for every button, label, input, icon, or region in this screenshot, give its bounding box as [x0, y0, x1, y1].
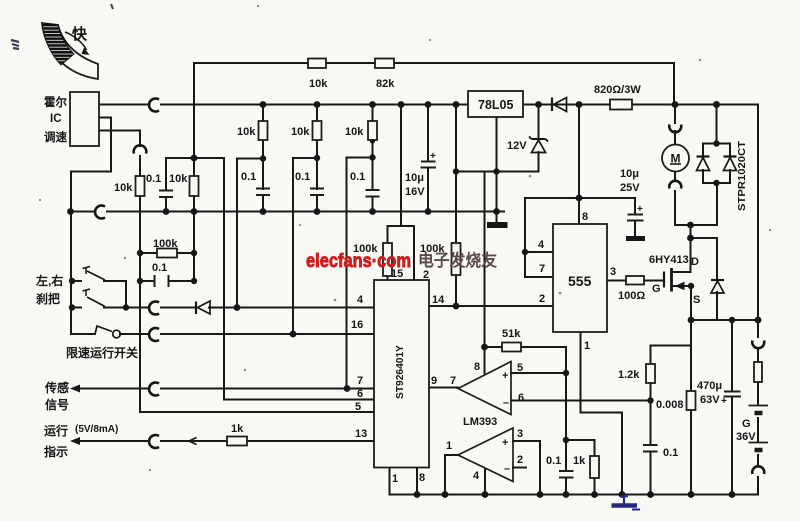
svg-text:调速: 调速: [44, 130, 67, 144]
svg-text:–: –: [504, 463, 510, 475]
capacitor 0.1 colB: [310, 189, 324, 196]
svg-text:ST926401Y: ST926401Y: [394, 345, 406, 399]
wire: pin14 row to 555 pin2: [430, 305, 552, 307]
svg-text:2: 2: [539, 293, 545, 305]
svg-text:7: 7: [450, 375, 456, 387]
wire: pin2 branch: [413, 226, 415, 280]
svg-text:36V: 36V: [736, 431, 756, 443]
wire: divider node x194 column: [193, 158, 195, 281]
svg-text:霍尔: 霍尔: [44, 95, 67, 109]
capacitor 10u/16V electrolytic: [421, 162, 437, 168]
svg-text:10k: 10k: [237, 126, 256, 138]
hall IC box: [70, 92, 99, 146]
svg-text:0.1: 0.1: [546, 455, 561, 467]
svg-text:G: G: [742, 418, 751, 430]
78L05 box U2: [468, 91, 523, 117]
svg-text:0.1: 0.1: [350, 171, 365, 183]
svg-text:+: +: [430, 151, 436, 162]
svg-text:10k: 10k: [291, 126, 310, 138]
svg-text:S: S: [693, 294, 700, 306]
comparator LM393b (lower, points left): [458, 428, 513, 482]
wire: 470u cap column x732: [731, 320, 733, 495]
wire: MOSFET source stub and column: [673, 286, 691, 495]
resistor 51k: [502, 343, 521, 352]
svg-text:10μ: 10μ: [620, 168, 639, 180]
svg-text:刹把: 刹把: [36, 291, 60, 306]
connector arcs at battery: [752, 341, 764, 349]
resistor 100k pin14: [452, 243, 461, 275]
svg-text:限速运行开关: 限速运行开关: [66, 345, 138, 360]
MOSFET 6HY413: [664, 268, 684, 292]
svg-text:8: 8: [474, 361, 480, 373]
svg-text:8: 8: [419, 472, 425, 484]
svg-text:运行: 运行: [44, 423, 68, 438]
wire: right edge column and battery column x758: [757, 105, 759, 495]
svg-text:555: 555: [568, 273, 592, 289]
wire: cap x166 stems: [165, 158, 167, 212]
wire: LM393 pin1 drop: [445, 455, 458, 495]
svg-text:+: +: [637, 204, 643, 215]
svg-text:7: 7: [539, 263, 545, 275]
svg-text:12V: 12V: [507, 140, 527, 152]
wire: 555 pin8 column: [578, 105, 580, 225]
wire: hall signal column x140 to IC pin5: [140, 156, 374, 412]
MCU box U1 ST926401Y: [374, 280, 429, 468]
wire: x566 column to 0.1 cap and bus: [565, 373, 567, 495]
svg-text:10k: 10k: [169, 173, 188, 185]
svg-text:14: 14: [432, 294, 445, 306]
limit speed switch with circle terminal: [95, 326, 120, 338]
wire: 1k branch y440: [566, 440, 595, 495]
wire: MOSFET drain stub: [673, 271, 691, 273]
capacitor 10u/25V electrolytic: [627, 215, 644, 221]
zener 12V: [529, 137, 548, 142]
svg-text:0.1: 0.1: [241, 171, 256, 183]
svg-text:1: 1: [584, 340, 590, 352]
wire: brake switch2 row to IC pin4: [72, 307, 374, 309]
svg-text:5: 5: [517, 362, 523, 374]
wire: 1.2k branch: [651, 346, 692, 402]
svg-text:+: +: [721, 396, 727, 407]
fuse on battery column: [754, 362, 762, 382]
svg-text:25V: 25V: [620, 182, 640, 194]
svg-text:10k: 10k: [345, 126, 364, 138]
battery G 36V plates: [749, 405, 769, 407]
junction dots: right power area: [687, 140, 761, 323]
wire: comparator pin5 row: [511, 372, 566, 374]
svg-text:指示: 指示: [44, 444, 68, 459]
wire: 555 pin3 to gate resistor: [607, 280, 663, 282]
wire: left column to brake switches: [70, 172, 72, 335]
svg-text:1: 1: [446, 440, 452, 452]
wire: 10k pullup column x317: [316, 105, 318, 212]
capacitor 0.1 colA: [256, 189, 270, 196]
wire: 100k column x456 to pin14 row: [455, 105, 457, 307]
svg-text:8: 8: [582, 211, 588, 223]
arrow: run indicator output: [70, 437, 80, 445]
brake switch 2: [83, 289, 106, 307]
svg-text:9: 9: [431, 375, 437, 387]
wire: 78L05 ground column: [496, 117, 498, 222]
555 box U3: [553, 224, 607, 332]
svg-text:100Ω: 100Ω: [618, 290, 645, 302]
comparator LM393a (upper, points left): [458, 362, 511, 415]
junction dots: bottom bus: [414, 491, 736, 498]
scan mark top-left: [11, 40, 19, 49]
wire: hall output 3 to connector: [97, 131, 140, 147]
ground bar 78L05: [487, 222, 508, 228]
svg-text:+: +: [502, 437, 508, 449]
resistor 0.008 shunt: [687, 391, 696, 410]
wire: IC bottom pins 1 and 8: [390, 468, 418, 495]
svg-text:STPR1020CT: STPR1020CT: [737, 141, 748, 211]
svg-text:电子发烧友: 电子发烧友: [418, 250, 497, 270]
wire: y171.5 tie line: [456, 171, 539, 173]
STPR1020CT diode left: [697, 155, 710, 157]
svg-text:16: 16: [351, 319, 363, 331]
wire: indicator row y441 to IC pin13: [78, 440, 374, 442]
resistor 1.2k: [646, 364, 655, 383]
wire: 0.1 row y281: [140, 280, 194, 282]
svg-text:1k: 1k: [573, 455, 586, 467]
svg-text:6: 6: [518, 392, 524, 404]
resistor 820ohm/3W: [610, 100, 632, 110]
wire: 10u16V cap column x428: [427, 105, 429, 212]
brake switch 1: [83, 267, 106, 281]
capacitor 470u/63V electrolytic: [724, 392, 742, 397]
ground symbol bottom (blue): [612, 495, 641, 510]
resistor 100ohm gate: [626, 276, 644, 285]
svg-text:信号: 信号: [45, 397, 69, 412]
wire: LM393 pin2 stub: [513, 467, 526, 469]
connector arcs at motor: [669, 125, 681, 133]
junction dots: ground bus: [67, 208, 500, 215]
svg-text:2: 2: [517, 454, 523, 466]
wire: pin9 to comparator input: [430, 387, 458, 389]
resistor 10k pullup C: [368, 121, 377, 140]
svg-text:10k: 10k: [309, 78, 328, 90]
resistor 100k pin15: [383, 243, 392, 276]
svg-text:–: –: [503, 397, 509, 409]
wire: 555 pin1 to ground column: [581, 332, 623, 495]
svg-text:82k: 82k: [376, 78, 395, 90]
capacitor 0.1 hall filter (horizontal): [155, 275, 169, 287]
throttle arrow: [65, 32, 87, 50]
motor M: [662, 145, 689, 172]
svg-text:13: 13: [355, 428, 367, 440]
svg-text:5: 5: [355, 401, 361, 413]
svg-text:1.2k: 1.2k: [618, 369, 640, 381]
STPR1020CT diode right: [724, 155, 737, 157]
connector arcs (C shapes) on left rows: [95, 99, 764, 475]
svg-text:IC: IC: [50, 113, 62, 125]
capacitor 0.1 (1.2k net): [643, 445, 658, 452]
svg-text:820Ω/3W: 820Ω/3W: [594, 84, 641, 96]
junction dots: middle area: [69, 138, 654, 443]
wire: LM393 pin3 drop: [513, 441, 540, 495]
svg-text:快: 快: [72, 25, 88, 43]
wire: top divider line from node x194 to battery+ corner: [194, 63, 674, 158]
wire: freewheel diode column x717: [716, 238, 718, 320]
resistor 10k divider lower: [190, 176, 199, 196]
wire: 51k feedback row y347: [485, 347, 567, 373]
svg-text:0.1: 0.1: [152, 262, 167, 274]
throttle wedge hatched part: [42, 23, 74, 65]
svg-text:16V: 16V: [405, 186, 425, 198]
svg-text:3: 3: [610, 266, 616, 278]
capacitor 0.1 colC: [366, 190, 380, 197]
wire: divider node top edge y158: [166, 157, 224, 159]
svg-text:1: 1: [392, 473, 398, 485]
resistor 1k (comparator): [590, 456, 599, 478]
wire: pin15 branch with 100k: [387, 226, 389, 280]
svg-text:M: M: [671, 152, 681, 166]
wire: STPR1020CT diode pair frame: [703, 105, 730, 226]
svg-text:7: 7: [357, 375, 363, 387]
resistor 1k (pin13): [227, 437, 247, 446]
ground bar 10u25V: [626, 236, 645, 241]
wire: limit switch row to IC pin16: [72, 333, 374, 335]
svg-text:51k: 51k: [502, 328, 521, 340]
svg-text:4: 4: [357, 294, 364, 306]
svg-text:G: G: [652, 283, 661, 295]
wire: comparator supply column x484: [484, 172, 486, 374]
svg-text:0.1: 0.1: [663, 447, 678, 459]
diode on pin4 row: [195, 302, 197, 315]
wire: 0.1 cap below 1.2k: [650, 401, 652, 495]
wire: column x401 feeding pins 15/2: [388, 105, 415, 227]
wire: comparator pin6 row y400.5: [511, 400, 651, 402]
wire: 555 pin4/7 strap: [525, 198, 552, 277]
arrow: sensor signal output: [70, 385, 80, 393]
wire: +5V/+12V top rail y=104: [97, 104, 758, 106]
diode series (rail): [551, 98, 553, 112]
svg-text:78L05: 78L05: [478, 98, 513, 112]
svg-text:0.1: 0.1: [295, 171, 310, 183]
wire: 100k row y253: [140, 252, 194, 254]
freewheel diode at MOSFET: [711, 279, 724, 281]
wire: 10k pullup column x263: [262, 105, 264, 212]
connector arc above hall 10k: [134, 145, 147, 153]
wire: motor column x675: [674, 105, 676, 226]
wire: column x346 pin7 pullup: [347, 158, 373, 389]
svg-text:1k: 1k: [231, 423, 244, 435]
wire: column x237 pin4 pullup: [237, 159, 263, 308]
wire: brake switch1 branch: [72, 281, 126, 308]
svg-text:6: 6: [357, 388, 363, 400]
svg-text:100k: 100k: [153, 238, 178, 250]
capacitor 0.1 (pin5 comparator net): [559, 471, 574, 478]
svg-text:10k: 10k: [114, 182, 133, 194]
svg-text:0.1: 0.1: [146, 173, 161, 185]
wire: column x293 pin16 pullup: [293, 158, 317, 334]
svg-text:左,右: 左,右: [35, 273, 63, 288]
wire: 12V zener column: [538, 105, 540, 172]
wire: column x224 to IC pin6: [224, 158, 374, 400]
resistor 10k pullup B: [313, 121, 322, 140]
svg-text:63V: 63V: [700, 394, 720, 406]
svg-text:6HY413: 6HY413: [649, 254, 689, 266]
wire: 10u25V cap to ground bar: [634, 222, 636, 236]
wire: hall output 2: [71, 118, 111, 172]
junction dots: top rail: [260, 101, 720, 108]
arrow: small direction mark on indicator row: [189, 438, 197, 445]
wire: 10k pullup column x372: [372, 105, 374, 212]
throttle wedge (speed grip): [42, 23, 98, 79]
resistor 10k (top divider): [308, 59, 326, 69]
svg-text:elecfans·com: elecfans·com: [306, 250, 411, 272]
wire: bottom ground bus y494.5: [390, 494, 759, 496]
svg-text:LM393: LM393: [463, 416, 497, 428]
svg-text:+: +: [502, 370, 508, 382]
wire: motor minus node rows: [675, 225, 717, 272]
wire: sensor row y388.5 to IC pin7: [78, 388, 374, 390]
wire: source row y320: [691, 319, 758, 321]
svg-text:470μ: 470μ: [697, 380, 722, 392]
svg-text:(5V/8mA): (5V/8mA): [75, 424, 118, 435]
capacitor 0.1 divider: [159, 191, 173, 198]
svg-text:4: 4: [538, 239, 545, 251]
wire: ground bus y=211.5: [70, 211, 504, 213]
wire: y198 line to 10u25V cap: [525, 198, 635, 213]
svg-text:3: 3: [517, 428, 523, 440]
resistor 82k (top divider): [375, 59, 394, 69]
resistor 10k hall series: [136, 176, 145, 196]
wire: LM393 pin4 drop: [484, 469, 486, 495]
svg-text:10μ: 10μ: [405, 172, 424, 184]
resistor 100k (row): [157, 249, 177, 258]
svg-text:D: D: [691, 256, 699, 268]
svg-text:传感: 传感: [44, 380, 69, 395]
svg-text:0.008: 0.008: [656, 399, 684, 411]
scan mark top edge: [111, 4, 113, 9]
svg-text:4: 4: [473, 470, 480, 482]
resistor 10k pullup A: [259, 121, 268, 140]
svg-text:2: 2: [423, 269, 429, 281]
